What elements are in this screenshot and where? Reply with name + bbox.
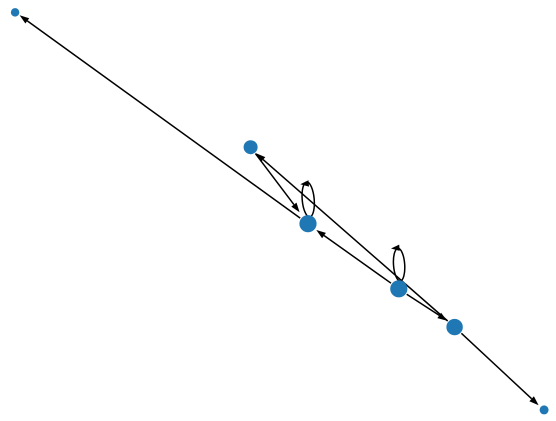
edge D->E wire bbox=[407, 294, 440, 315]
node B bbox=[244, 140, 258, 154]
arrowhead B->C bbox=[291, 203, 299, 213]
edge E->B wire bbox=[263, 160, 448, 321]
self-loop C wire bbox=[301, 182, 316, 218]
arrowhead self-loop D bbox=[391, 245, 400, 251]
arrowhead C->A bbox=[20, 15, 30, 23]
node E bbox=[446, 319, 462, 335]
arrowhead D->C bbox=[316, 230, 326, 238]
arrowhead E->F bbox=[529, 396, 538, 405]
arrowhead E->B bbox=[256, 153, 265, 162]
arrowhead self-loop C bbox=[300, 180, 309, 186]
edge E->F wire bbox=[461, 333, 531, 398]
node C bbox=[299, 215, 316, 232]
node D bbox=[390, 280, 407, 297]
edge C->A wire bbox=[27, 21, 300, 218]
self-loop D wire bbox=[392, 248, 405, 281]
node F bbox=[540, 405, 549, 414]
arrowhead D->E bbox=[437, 313, 447, 321]
edge B->C wire bbox=[255, 154, 294, 205]
node A bbox=[11, 8, 20, 17]
edge D->C wire bbox=[324, 236, 391, 284]
